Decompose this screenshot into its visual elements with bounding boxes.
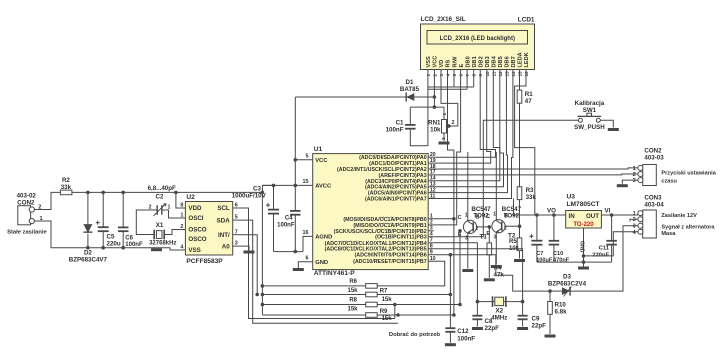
ground at left rail end — [151, 248, 162, 251]
svg-text:22pF: 22pF — [485, 325, 500, 332]
wire C4 bottom to analog ground rail — [294, 215, 296, 252]
wire LCD pin3 VD to RN1 wiper — [441, 78, 458, 127]
junction dot PB6 C12 tap — [449, 253, 453, 257]
wire ladder line 1 — [262, 285, 365, 287]
svg-text:C10: C10 — [553, 251, 563, 257]
junction dot C7 top — [535, 213, 539, 217]
svg-text:Zasilanie 12V: Zasilanie 12V — [661, 213, 697, 219]
svg-text:OSCO: OSCO — [188, 236, 206, 243]
svg-text:C4: C4 — [285, 216, 293, 222]
svg-text:CON2: CON2 — [644, 148, 662, 155]
svg-text:AVCC: AVCC — [315, 184, 332, 190]
svg-text:D2: D2 — [84, 250, 92, 257]
LCD pin name labels (rotated) — [426, 52, 530, 67]
svg-text:(OC1B/PCINT11)PB3: (OC1B/PCINT11)PB3 — [375, 235, 427, 241]
wire C3 to AVCC rail — [273, 185, 275, 251]
ground at CON2r pin3 — [617, 184, 628, 187]
wire ladder3 down join SCL bottom wire — [394, 305, 396, 319]
resistor R2 33k — [60, 177, 72, 195]
svg-text:2: 2 — [180, 224, 183, 230]
label Przyciski ustawiania czasu — [661, 171, 716, 185]
diode D3 BZP683C2V4 — [548, 274, 587, 297]
junction dot C4 bottom rail — [294, 250, 298, 254]
svg-text:DB4: DB4 — [492, 55, 498, 67]
svg-text:2: 2 — [633, 217, 636, 223]
ground at U1 GND — [293, 268, 304, 271]
wire ladder line 4 right — [377, 314, 454, 316]
ground at T1 emitter — [462, 269, 473, 272]
U2 right pin labels — [217, 203, 239, 251]
svg-text:DB3: DB3 — [485, 56, 491, 67]
U1 pin 15 AVCC — [262, 179, 332, 190]
junction dot pullup rail top — [261, 191, 265, 195]
wire PB2 vertical down to ladder line 3 (SCL) — [459, 231, 461, 305]
svg-text:R5: R5 — [509, 239, 517, 245]
U1 pin 5 VCC — [295, 154, 328, 165]
svg-text:403-03: 403-03 — [644, 155, 664, 162]
svg-text:Sygnał z alternatora: Sygnał z alternatora — [661, 225, 715, 231]
wire U2 VSS to ground rail — [157, 248, 180, 250]
svg-text:6,8...40pF: 6,8...40pF — [148, 185, 176, 192]
wire PA2 to CON2 pin1 — [434, 168, 638, 169]
wire U3 gnd rail stub down — [583, 262, 585, 266]
wire PB5 to X2 right — [434, 249, 523, 302]
svg-text:OSCO: OSCO — [188, 227, 206, 234]
svg-text:C1: C1 — [396, 120, 404, 127]
capacitor C11 220nF — [592, 215, 617, 262]
wire CON3 pin2 stub — [630, 219, 638, 221]
U2 left pin labels — [179, 203, 206, 255]
wire DB0 tie line — [428, 78, 467, 90]
svg-text:LCD1: LCD1 — [518, 17, 535, 24]
capacitor C4 100nF — [277, 211, 300, 229]
svg-text:INT/: INT/ — [218, 232, 230, 239]
wire LCD LEDA pin15 to R1 — [519, 78, 521, 91]
svg-text:100nF: 100nF — [125, 242, 143, 248]
LCD inner box LCD_2X16 (LED backlight) — [427, 31, 528, 45]
ground at RN1 pin 3 — [439, 142, 450, 145]
svg-text:Masa: Masa — [661, 231, 676, 237]
wire R5 bottom to ground — [519, 251, 521, 259]
svg-text:U3: U3 — [567, 194, 576, 201]
crystal X1 32768kHz — [149, 222, 176, 246]
svg-text:R/W: R/W — [452, 56, 458, 68]
LCD pin numbers 1-16 — [426, 71, 529, 77]
svg-text:E: E — [486, 231, 490, 237]
ground at U3 GND — [578, 267, 589, 270]
svg-text:15k: 15k — [382, 316, 393, 322]
capacitor C12 100nF — [445, 328, 475, 343]
svg-text:7: 7 — [235, 229, 238, 235]
wire LCD data 0 staircase — [434, 78, 454, 219]
svg-text:IN: IN — [569, 213, 576, 220]
capacitor C8 22pF — [472, 302, 499, 332]
ground at R10 — [545, 335, 556, 338]
wire rail jog up to AVCC line — [262, 185, 273, 192]
junction dot C10 top — [552, 213, 556, 217]
svg-text:R7: R7 — [380, 289, 388, 295]
wire D3 cathode to CON3 pin3 — [570, 226, 638, 291]
wire U2 SDA down to bottom — [239, 220, 398, 323]
svg-text:Kalibracja: Kalibracja — [575, 100, 605, 107]
resistor R8 15k — [347, 298, 377, 313]
svg-text:C: C — [486, 214, 490, 220]
wire R1 bottom down to R3 top — [519, 103, 521, 187]
trimmer RN1 10k — [428, 107, 449, 140]
wire SW1 right to ground — [600, 120, 613, 127]
junction dot T2 base — [518, 224, 522, 228]
svg-text:100nF: 100nF — [457, 336, 475, 343]
svg-text:8: 8 — [180, 203, 183, 209]
junction dot C3 top — [272, 184, 276, 188]
svg-text:(ADC10/RESET/PCINT15)PB7: (ADC10/RESET/PCINT15)PB7 — [353, 259, 427, 265]
wire C2 right to OSCI — [162, 210, 180, 218]
junction dots D2 — [86, 191, 90, 250]
svg-text:Dobrać do potrzeb: Dobrać do potrzeb — [389, 332, 441, 338]
svg-text:16: 16 — [303, 230, 309, 236]
junction dot C12 tap — [449, 293, 453, 297]
svg-text:PCFF8583P: PCFF8583P — [186, 258, 223, 265]
svg-text:SW1: SW1 — [583, 107, 597, 114]
svg-text:100uF: 100uF — [536, 257, 553, 263]
wire LCD LEDK pin16 loop — [515, 78, 535, 216]
svg-text:4: 4 — [180, 245, 183, 251]
svg-text:R3: R3 — [526, 187, 534, 194]
svg-text:4MHz: 4MHz — [491, 314, 507, 321]
svg-text:10k: 10k — [430, 127, 441, 134]
wire SW1 to U1 PB3 row — [434, 120, 579, 236]
svg-text:OUT: OUT — [586, 213, 599, 220]
svg-text:C5: C5 — [107, 234, 115, 241]
svg-text:470nF: 470nF — [553, 257, 570, 263]
svg-text:5: 5 — [235, 215, 238, 221]
svg-text:RN1: RN1 — [428, 120, 441, 127]
capacitor C9 22pF — [518, 302, 547, 330]
svg-text:DB0: DB0 — [465, 56, 471, 67]
wire CON2 pin1 to bottom ground rail — [34, 221, 156, 248]
svg-text:A0: A0 — [222, 243, 230, 250]
junction dot at LCD VCC pin 2 — [433, 95, 437, 99]
capacitor C10 470nF — [549, 215, 570, 263]
svg-text:LCD_2X16 (LED backlight): LCD_2X16 (LED backlight) — [440, 36, 515, 42]
wire T2 emitter to ground — [495, 235, 497, 265]
svg-text:C6: C6 — [125, 236, 133, 242]
svg-text:C11: C11 — [599, 246, 610, 252]
switch SW1 SW_PUSH Kalibracja — [574, 100, 605, 131]
U1 port B pin stubs and numbers — [428, 214, 436, 262]
wire LCD data 6 staircase — [434, 78, 508, 193]
wire X2 horizontal — [477, 301, 522, 303]
wire U2 INT to ladder — [239, 235, 258, 295]
IC U1 ATTINY461-P body — [313, 146, 429, 277]
wire U3 IN left VO node — [514, 199, 566, 216]
wire U2 A0 to ground — [239, 246, 249, 250]
wire PA3 to CON2 pin2 — [434, 173, 638, 176]
svg-text:R6: R6 — [349, 279, 357, 285]
svg-text:SW_PUSH: SW_PUSH — [574, 124, 605, 131]
wire LCD pin2 VCC down to +5V rail — [433, 78, 435, 108]
svg-text:TO92: TO92 — [504, 213, 520, 220]
wire +5V rail from U1 VCC corner to LCD VCC — [295, 96, 434, 98]
ground at C8 — [472, 327, 483, 330]
wire CON2r pin3 to ground — [622, 180, 638, 184]
junction dots C6 — [121, 191, 125, 250]
U1 port A pin stubs and numbers — [428, 152, 436, 199]
svg-text:U1: U1 — [314, 146, 323, 153]
junction dots PB2 SCL — [458, 229, 462, 306]
svg-text:6: 6 — [306, 256, 309, 262]
wire VSS R/W DB1 tie line — [428, 78, 474, 88]
svg-text:R2: R2 — [62, 177, 70, 184]
resistor R10 6.8k — [548, 291, 567, 334]
crystal X2 4MHz — [491, 296, 507, 321]
svg-text:DB6: DB6 — [505, 56, 511, 67]
svg-text:C12: C12 — [457, 328, 469, 335]
svg-text:100nF: 100nF — [386, 127, 404, 134]
svg-text:(MOSI/DI/SDA/OC1A/PCINT8)PB0: (MOSI/DI/SDA/OC1A/PCINT8)PB0 — [343, 217, 426, 223]
svg-text:CON3: CON3 — [644, 194, 662, 201]
junction dot T1 base R4 — [488, 225, 492, 229]
wire U2 VDD from top rail — [176, 192, 180, 208]
junction dots X2 — [476, 300, 525, 304]
svg-text:VSS: VSS — [426, 56, 432, 67]
svg-text:C8: C8 — [485, 318, 493, 325]
wire VCC pullup rail down from AVCC — [261, 192, 263, 315]
junction dot D3 R10 node — [548, 289, 552, 293]
wire ladder line 1 right to PB7 row — [377, 261, 445, 286]
svg-text:2: 2 — [452, 120, 455, 126]
wire PB4 to X2 left — [434, 243, 478, 302]
svg-text:15: 15 — [303, 179, 309, 185]
svg-text:Przyciski ustawiania: Przyciski ustawiania — [661, 171, 716, 177]
wire C2 left down to X1 left — [136, 210, 157, 235]
svg-text:BAT85: BAT85 — [400, 86, 420, 93]
wire VSS down to C1/RN1 bottom rail — [427, 87, 429, 146]
wire PB6 row down to C12 — [449, 255, 451, 328]
IC U2 PCF8583P body — [185, 194, 232, 265]
svg-text:LEDK: LEDK — [524, 52, 530, 67]
wire +5V down left side of U1 — [294, 97, 296, 211]
wire ladder line 3 right — [377, 304, 460, 306]
svg-text:15k: 15k — [382, 297, 393, 303]
svg-text:DB1: DB1 — [472, 56, 478, 67]
junction dot C11 top — [610, 213, 614, 217]
svg-text:100nF: 100nF — [277, 223, 295, 229]
wire RN1 pin3 down — [443, 133, 445, 141]
svg-text:R8: R8 — [349, 298, 357, 304]
svg-text:R10: R10 — [555, 302, 567, 309]
wire LCD data 1 staircase — [434, 78, 461, 225]
wire T1 base right to R4 — [477, 226, 490, 228]
svg-text:220u: 220u — [107, 241, 121, 248]
wire CON3 pin4 masa to ground rail — [584, 232, 638, 256]
transistor T1 BC547 — [458, 206, 492, 241]
capacitor C6 100nF — [118, 192, 143, 248]
svg-text:RS: RS — [446, 59, 452, 67]
trimmer capacitor C2 — [149, 194, 171, 216]
svg-text:VDD: VDD — [188, 205, 202, 212]
capacitor C5 220u — [96, 192, 121, 247]
svg-text:6.8k: 6.8k — [555, 309, 568, 316]
svg-text:DB7: DB7 — [511, 56, 517, 67]
svg-text:OSCI: OSCI — [188, 215, 203, 222]
svg-text:CON2: CON2 — [17, 199, 35, 206]
svg-text:VCC: VCC — [315, 158, 328, 164]
connector CON2 403-03 — [633, 148, 665, 186]
resistor R1 47 — [517, 90, 533, 105]
svg-text:1: 1 — [633, 211, 636, 217]
svg-text:czasu: czasu — [661, 179, 677, 185]
wire ladder line 4 — [262, 314, 365, 316]
svg-text:U2: U2 — [186, 194, 195, 201]
wire top rail R2 to U2 VDD and AVCC — [72, 191, 263, 193]
wire LCD data 4 staircase — [434, 78, 500, 181]
wire ladder line 2 right to C12 vertical — [377, 294, 450, 296]
svg-text:BZP683C2V4: BZP683C2V4 — [548, 281, 587, 288]
svg-text:1: 1 — [430, 214, 433, 220]
wire ladder line 2 — [262, 294, 365, 296]
wire U2 SCL down to bottom — [239, 208, 395, 319]
wire PB6 to D3 node — [434, 255, 550, 291]
svg-text:22pF: 22pF — [532, 323, 547, 330]
capacitor C1 100nF — [386, 120, 416, 134]
svg-text:VCC: VCC — [433, 56, 439, 68]
U1 port A pin labels — [337, 155, 427, 202]
svg-text:GND: GND — [315, 260, 328, 266]
ground at SW1 — [608, 128, 619, 131]
svg-text:E: E — [458, 232, 462, 238]
junction dot ladder4 — [396, 313, 400, 317]
svg-text:LEDA: LEDA — [518, 52, 524, 67]
svg-text:X2: X2 — [496, 307, 504, 314]
svg-text:3: 3 — [633, 224, 636, 230]
svg-text:3: 3 — [633, 178, 636, 184]
junction dot VCC at C1 rail — [433, 105, 437, 109]
svg-text:15k: 15k — [347, 307, 358, 313]
svg-text:SDA: SDA — [217, 217, 231, 224]
svg-text:SCL: SCL — [217, 205, 230, 212]
svg-text:4: 4 — [430, 232, 433, 238]
wire T2 base right to R3/R5 junction — [505, 225, 519, 227]
svg-text:1: 1 — [633, 166, 636, 172]
U1 pin 6 GND — [298, 256, 328, 269]
wire PB0 vertical down to ladder line 4 (SDA) — [453, 219, 455, 315]
ground at T2 emitter — [491, 265, 502, 268]
capacitor C7 100uF — [529, 215, 553, 263]
svg-text:DB2: DB2 — [478, 56, 484, 67]
ground at R5 — [514, 259, 525, 262]
svg-text:ATTINY461-P: ATTINY461-P — [314, 270, 356, 277]
resistor R9 15k — [366, 309, 393, 322]
svg-text:33k: 33k — [61, 184, 72, 191]
U1 pin 16 AGND — [303, 230, 333, 252]
svg-text:1: 1 — [180, 213, 183, 219]
wire ladder line 3 — [262, 304, 365, 306]
transistor T2 BC547 — [486, 206, 521, 241]
wire R3 bottom to R5 top — [519, 200, 521, 238]
svg-text:TO-220: TO-220 — [573, 222, 594, 228]
ground at C9 — [517, 327, 528, 330]
wire CON2 pin2 up to R2 — [34, 192, 60, 209]
wire T1 collector up — [467, 152, 469, 218]
junction dots on +5V at VCC and AVCC — [294, 158, 298, 187]
resistor R3 33k — [517, 187, 536, 201]
svg-text:Stałe zasilanie: Stałe zasilanie — [7, 230, 47, 236]
wire ground rail under C7 C10 C11 — [537, 261, 612, 263]
junction dot VDD rail — [174, 191, 178, 195]
resistor R5 10k — [509, 238, 522, 252]
svg-text:C: C — [458, 215, 462, 221]
junction dot ladder3 — [393, 303, 397, 307]
svg-text:2: 2 — [633, 172, 636, 178]
connector CON2 403-02 — [17, 192, 43, 225]
svg-text:32768kHz: 32768kHz — [149, 240, 176, 246]
svg-text:3: 3 — [235, 241, 238, 247]
junction dots PB0 SDA — [452, 217, 456, 317]
wire LCD data 5 staircase — [434, 78, 504, 187]
svg-text:R9: R9 — [380, 309, 388, 315]
resistor R4 47k — [487, 227, 504, 279]
LCD pin stubs — [428, 70, 526, 78]
svg-text:VD: VD — [439, 60, 445, 68]
svg-text:D3: D3 — [563, 274, 571, 281]
wire D3 anode left — [550, 290, 562, 292]
svg-text:(ADC9/INT0/T0/PCINT14)PB6: (ADC9/INT0/T0/PCINT14)PB6 — [355, 253, 427, 259]
wire LCD data 2 staircase — [434, 78, 496, 158]
svg-text:15k: 15k — [347, 288, 358, 294]
junction dot masa — [582, 254, 586, 258]
svg-text:DB5: DB5 — [498, 56, 504, 67]
svg-text:AGND: AGND — [315, 235, 332, 241]
svg-text:GND: GND — [579, 241, 585, 253]
capacitor C3 1000uF/10V — [232, 186, 279, 214]
svg-text:VI: VI — [605, 208, 611, 215]
svg-text:VSS: VSS — [188, 247, 200, 254]
wire LCD data 7 staircase — [434, 78, 513, 199]
svg-text:9: 9 — [430, 250, 433, 256]
wire X1 right to OSCO — [164, 230, 179, 235]
svg-text:LM7805CT: LM7805CT — [567, 201, 600, 208]
svg-text:6: 6 — [235, 203, 238, 209]
analog ground rail under C3 C4 — [274, 251, 304, 253]
junction dots C5 — [101, 191, 105, 250]
svg-text:LCD_2X16_SIL: LCD_2X16_SIL — [421, 16, 466, 23]
junction dot U3 gnd rail — [582, 260, 586, 264]
svg-text:BZP683C4V7: BZP683C4V7 — [69, 257, 108, 264]
wire U3 OUT right to CON3 pin1 — [601, 214, 638, 216]
LCD module LCD1 outer box — [421, 24, 535, 70]
svg-text:E: E — [459, 64, 465, 68]
ground at C12 — [445, 343, 456, 346]
ground at R4 — [484, 278, 495, 281]
U3 GND pin down — [579, 228, 585, 263]
IC U3 LM7805CT body — [566, 194, 602, 228]
zener diode D2 BZP683C4V7 — [69, 192, 108, 263]
svg-text:403-02: 403-02 — [17, 192, 37, 199]
connector CON3 403-04 — [633, 194, 665, 238]
wire T2 collector up — [495, 152, 497, 218]
wire LCD data 3 staircase — [434, 78, 491, 164]
svg-text:C9: C9 — [532, 316, 540, 323]
ground at U2 A0 — [244, 251, 255, 254]
wire T1 emitter to ground — [467, 236, 469, 269]
svg-text:47: 47 — [525, 98, 532, 105]
svg-text:R1: R1 — [525, 91, 533, 98]
svg-text:C2: C2 — [156, 194, 164, 201]
resistor R6 15k — [347, 279, 377, 294]
svg-text:5: 5 — [306, 154, 309, 160]
svg-text:D1: D1 — [406, 79, 414, 86]
